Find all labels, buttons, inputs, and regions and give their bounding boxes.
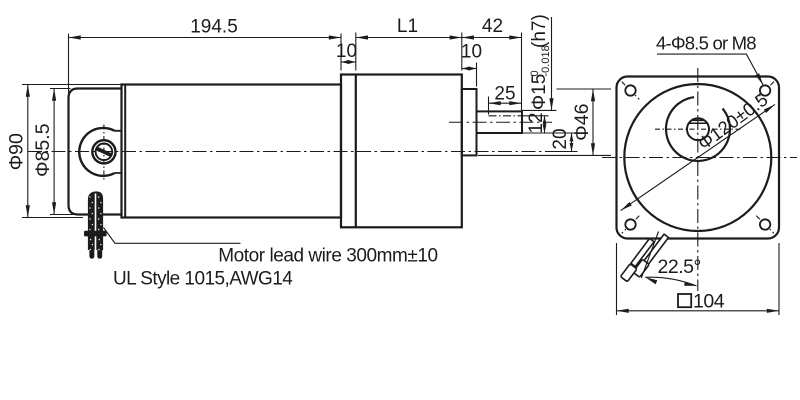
- wire: Phi90 bottom extension: [22, 217, 83, 219]
- mounting hole (Phi8.5): [760, 85, 770, 95]
- arrowhead Phi90 top: [26, 85, 30, 97]
- wire: Phi120 bolt-circle dimension line: [621, 104, 775, 210]
- svg-text:22.5°: 22.5°: [658, 256, 701, 278]
- wire: face view vertical centerline: [697, 68, 699, 291]
- wire: 42 dimension line: [462, 37, 522, 39]
- svg-text:(h7): (h7): [529, 14, 550, 48]
- arrowhead 25 left: [489, 101, 501, 105]
- wire: shaft flat chord upper: [692, 119, 705, 121]
- svg-text:4-Φ8.5 or M8: 4-Φ8.5 or M8: [656, 33, 756, 54]
- arrowhead 194.5 left: [69, 35, 81, 39]
- wire: hole centre mark: [756, 216, 774, 234]
- wire: 194.5 / 10 shared extension: [340, 34, 342, 71]
- wire: 20 dimension line: [571, 133, 573, 152]
- wire: 104 left extension: [616, 243, 618, 315]
- wire: shaft bottom extension: [522, 132, 578, 134]
- arrowhead L1 left: [356, 35, 368, 39]
- wire: hole centre mark: [756, 82, 774, 100]
- brush cap inner circle: [96, 144, 113, 161]
- wire: shaft flat hidden line: [489, 115, 523, 117]
- arrowhead 22.5 right: [684, 282, 696, 286]
- wire: 104 dimension line: [617, 310, 780, 312]
- svg-text:-0.018: -0.018: [540, 45, 552, 76]
- arrowhead Phi46 top: [591, 89, 595, 101]
- arrowhead 42 right: [509, 35, 521, 39]
- wire: hole centre mark: [622, 216, 640, 234]
- arrowhead L1 right: [450, 35, 462, 39]
- svg-text:104: 104: [693, 291, 725, 313]
- svg-text:25: 25: [494, 84, 515, 105]
- wire: 104 right extension: [778, 243, 780, 315]
- svg-text:Φ90: Φ90: [6, 133, 28, 170]
- wire: 22.5deg angle arc: [645, 277, 696, 286]
- arrowhead 12 bottom: [543, 125, 547, 134]
- wire: hole centre mark: [622, 82, 640, 100]
- svg-text:L1: L1: [397, 16, 418, 37]
- svg-text:42: 42: [482, 16, 503, 37]
- output shaft circle (Phi15, face view): [687, 118, 709, 140]
- wire: shaft flat chord lower: [689, 122, 707, 124]
- wire: Phi85.5 top extension: [50, 88, 71, 90]
- svg-text:194.5: 194.5: [190, 17, 238, 38]
- wire: 42 right extension: [521, 33, 523, 111]
- value label Phi15 0/-0.018 (h7): [529, 14, 552, 110]
- svg-text:UL Style 1015,AWG14: UL Style 1015,AWG14: [113, 269, 293, 290]
- rear end cap (Phi85.5): [69, 89, 122, 215]
- brush cap outer circle: [92, 140, 115, 163]
- wire: flat extension line: [522, 115, 549, 117]
- svg-text:Φ85.5: Φ85.5: [32, 123, 54, 177]
- arrowhead Phi90 bottom: [26, 205, 30, 217]
- svg-text:12: 12: [526, 112, 547, 133]
- wire: output shaft centerline (side view): [449, 121, 552, 123]
- arrowhead Phi15: [549, 98, 553, 110]
- wire: shaft top extension: [522, 109, 557, 111]
- wire: Phi85.5 bottom extension: [50, 214, 76, 216]
- svg-text:10: 10: [336, 41, 357, 62]
- arrowhead 194.5 right: [329, 35, 341, 39]
- arrowhead 20 bottom: [570, 143, 574, 152]
- wire: motor axis extension: [552, 151, 578, 153]
- mounting hole (Phi8.5): [625, 219, 635, 229]
- wire: 194.5 left extension: [68, 34, 70, 94]
- arrowhead 10 boss left: [462, 67, 470, 71]
- wire: Phi46 bottom extension: [478, 154, 611, 156]
- arrowhead 104 right: [767, 309, 779, 313]
- arrowhead Phi46 bottom: [591, 143, 595, 155]
- svg-text:Motor lead wire 300mm±10: Motor lead wire 300mm±10: [218, 246, 437, 267]
- arrowhead 104 left: [617, 309, 629, 313]
- svg-text:10: 10: [461, 42, 482, 63]
- svg-text:Φ15: Φ15: [529, 74, 550, 110]
- arrowhead Phi85.5 top: [52, 89, 56, 101]
- wire: 10 boss dimension line: [462, 68, 477, 70]
- wire: lead-wire note leader: [104, 228, 241, 244]
- svg-text:20: 20: [550, 128, 571, 149]
- mounting hole (Phi8.5): [625, 85, 635, 95]
- wire: L1 dimension line: [356, 37, 462, 39]
- arrowhead 20 top: [570, 133, 574, 142]
- gearbox housing (square 104): [341, 75, 462, 228]
- wire: face view shaft horizontal centerline: [655, 128, 742, 130]
- arrowhead 10 boss right: [469, 67, 477, 71]
- arrowhead 42 left: [462, 35, 474, 39]
- wire: Phi15 leader line: [551, 17, 553, 110]
- gearbox round body circle: [624, 84, 771, 231]
- square symbol: [678, 294, 691, 307]
- output boss (Phi46): [462, 89, 477, 155]
- output boss circle arc (Phi46, face view): [666, 97, 730, 161]
- wire: 25 dimension line: [489, 102, 523, 104]
- wire: 10 flange dimension line: [341, 61, 356, 63]
- wire: Phi46 top extension: [557, 88, 612, 90]
- mounting hole (Phi8.5): [760, 219, 770, 229]
- wire: Phi90 top extension: [22, 84, 121, 86]
- wire: flange/gearbox joint line: [355, 75, 357, 228]
- output shaft (Phi15): [477, 111, 523, 133]
- wire: Phi90 dimension line: [27, 85, 29, 218]
- arrowhead 12 top: [543, 116, 547, 125]
- arrowhead hole label leader: [756, 73, 764, 85]
- arrowhead 22.5 left: [645, 277, 657, 284]
- wire: 25 left extension: [488, 97, 490, 115]
- arrowhead Phi120 lower-left: [621, 202, 632, 211]
- brush cap screw slot: [95, 146, 112, 157]
- wire: brush housing jog lines: [115, 131, 122, 173]
- wire: 10 boss extension: [476, 63, 478, 87]
- mounting flange plate (square 104): [617, 77, 780, 239]
- wire: motor axis centerline (side view): [28, 151, 554, 153]
- wire: L1 left extension: [355, 33, 357, 71]
- wire: hole label leader: [657, 54, 763, 85]
- wire: L1/42 shared extension: [461, 33, 463, 71]
- wire: brush cap vertical centerline: [103, 125, 105, 180]
- svg-text:Φ46: Φ46: [571, 104, 593, 141]
- motor lead wires (face view): [620, 234, 668, 282]
- wire: face view horizontal centerline: [602, 157, 797, 159]
- motor body cylinder (Phi90): [122, 85, 342, 218]
- wire: Phi85.5 dimension line: [53, 89, 55, 215]
- arrowhead 10 flange left: [341, 60, 349, 64]
- wire: Phi46 dimension line: [592, 89, 594, 155]
- arrowhead Phi120 upper-right: [764, 104, 775, 113]
- wire: 194.5 dimension line: [69, 37, 342, 39]
- motor lead wires (side view): [84, 191, 107, 258]
- brush housing arc: [79, 128, 114, 176]
- wire: end-cap/body joint line: [124, 85, 126, 218]
- arrowhead Phi85.5 bottom: [52, 202, 56, 214]
- wire: 12 dimension line: [544, 116, 546, 133]
- arrowhead 25 right: [509, 101, 521, 105]
- wire: 22.5deg reference line: [641, 232, 658, 279]
- arrowhead 10 flange right: [348, 60, 356, 64]
